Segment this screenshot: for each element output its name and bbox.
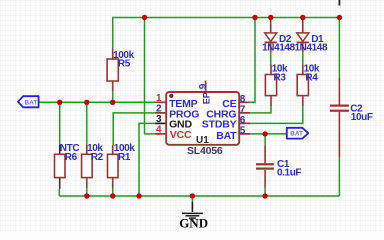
U1 pin CHRG name [206,108,236,120]
junction BAT net / R2 [84,100,89,105]
U1 pin 4 number [156,125,162,136]
U1 pin 8 number [240,94,246,105]
op-amp U1 SL4056 body [155,81,250,145]
wire VCC drop to pin4 [145,18,156,134]
U1 pin 2 number [156,104,162,115]
U1 pin 1 number [156,93,162,104]
U1 pin VCC name [170,129,192,141]
junction BAT net / R6 [57,100,62,105]
wire pin5 BAT to flag [250,133,287,135]
svg-text:R5: R5 [118,59,131,70]
junction bottom rail / R1 [110,193,115,198]
svg-text:R3: R3 [274,72,287,83]
svg-text:0.1uF: 0.1uF [277,168,301,179]
junction bottom rail / ground [190,193,195,198]
svg-text:EP: EP [202,92,212,104]
junction bottom rail / pin3 [136,193,141,198]
wire D1 anode green [302,18,304,22]
U1 pin 7 number [240,105,246,116]
svg-text:GND: GND [179,216,208,231]
svg-text:3: 3 [156,114,162,125]
U1 pin STDBY name [202,119,237,131]
svg-text:R1: R1 [118,152,131,163]
svg-text:1N4148: 1N4148 [262,43,295,54]
svg-text:R2: R2 [91,152,104,163]
junction top rail / D1 [300,15,305,20]
U1 pin GND name [169,119,192,131]
node BAT flag right [287,128,309,139]
junction top rail / C2 [337,15,342,20]
wire top rail VCC [113,17,340,19]
U1 pin EP name [202,92,212,104]
svg-text:BAT: BAT [216,130,237,142]
junction top rail / VCC drop [142,15,147,20]
wire C1 top lead [264,134,266,147]
resistor R4 [297,64,320,107]
svg-text:1: 1 [156,93,162,104]
wire R6 top lead [59,102,61,145]
wire R6 bottom lead [58,189,60,196]
wire C2 top lead [338,18,340,79]
svg-text:4: 4 [156,125,162,136]
capacitor C2 [330,78,373,157]
wire R1 bottom lead [112,188,114,196]
svg-text:2: 2 [156,104,162,115]
junction bottom rail / R2 [84,193,89,198]
svg-text:6: 6 [240,115,246,126]
svg-text:R4: R4 [305,72,318,83]
U1 pin 3 number [156,114,162,125]
wire bottom rail GND [59,195,339,197]
U1 pin 5 number [240,126,246,137]
wire R5 bottom to BAT net [112,91,114,103]
wire D1 cathode to R4 green [302,52,304,66]
svg-text:BAT: BAT [290,131,303,138]
svg-text:10uF: 10uF [351,112,373,123]
U1 refdes [196,135,209,146]
net stub off-sheet top (black) [338,0,340,6]
junction pin5 / C1 [262,131,267,136]
svg-text:8: 8 [240,94,246,105]
wire R5 top lead [112,17,114,50]
U1 pin BAT name [216,130,237,142]
wire pin7 CHRG to R3 [250,106,272,113]
wire R2 bottom lead [86,188,88,196]
diode D1 [295,20,328,54]
svg-text:SL4056: SL4056 [187,145,223,157]
capacitor C1 [256,146,301,188]
diode D2 [262,20,295,54]
wire pin2 PROG to R1 [113,113,156,145]
U1 pin 6 number [240,115,246,126]
wire BAT net horizontal [39,101,156,103]
junction top rail / CE drop [252,15,257,20]
resistor R2 [82,143,104,188]
svg-text:9: 9 [198,83,209,89]
wire C2 bottom lead [338,157,340,196]
ground [179,202,208,231]
svg-text:5: 5 [240,126,246,137]
wire D2 anode green [270,18,272,22]
resistor R3 [265,64,288,107]
resistor R5 [107,49,134,91]
node BAT flag left [18,96,39,107]
U1 pin PROG name [169,108,199,120]
svg-text:STDBY: STDBY [202,119,237,131]
junction top rail / D2 [268,15,273,20]
wire D2 cathode to R3 green [270,52,272,66]
resistor R6 (NTC) [55,143,80,189]
wire pin6 STDBY to R4 [250,106,303,124]
wire R2 top lead [86,102,88,145]
U1 pin CE name [222,98,236,110]
wire GND tap [191,196,193,202]
U1 pin 9 number [198,83,209,89]
junction BAT net / R5 [110,100,115,105]
svg-text:7: 7 [240,105,246,116]
wire C1 bottom lead [264,188,266,197]
svg-text:R6: R6 [65,152,78,163]
junction bottom rail / C1 [262,193,267,198]
svg-text:VCC: VCC [170,129,192,141]
U1 value SL4056 [187,145,223,157]
resistor R1 [108,143,136,188]
svg-text:BAT: BAT [25,99,38,106]
wire pin3 GND to bottom rail [139,123,156,196]
U1 pin TEMP name [169,98,198,110]
svg-text:1N4148: 1N4148 [295,43,328,54]
wire pin8 CE to top rail [250,18,256,103]
